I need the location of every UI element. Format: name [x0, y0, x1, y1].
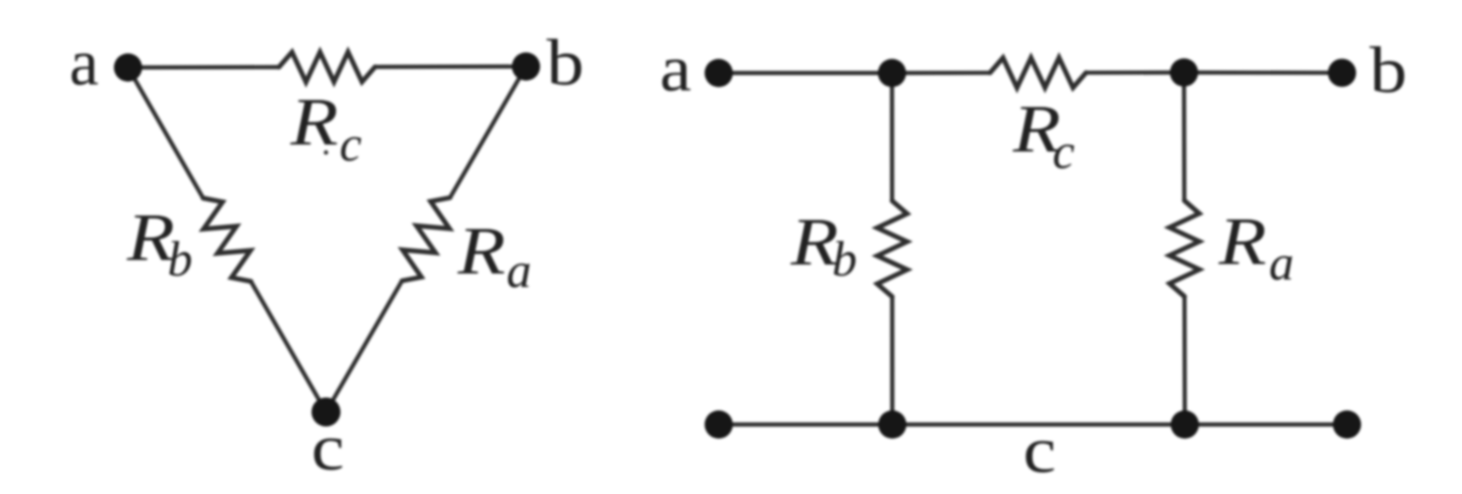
resistor Ra (delta) zigzag	[402, 198, 450, 281]
svg-text:c: c	[311, 411, 344, 484]
svg-text:a: a	[507, 242, 532, 298]
svg-text:R: R	[1218, 204, 1267, 279]
wire node a to Rc (delta)	[128, 65, 279, 70]
wire Rb (pi) to bottom-left junction	[890, 297, 894, 425]
top-right junction node (pi)	[1170, 58, 1198, 86]
wire Ra (delta) to node c	[326, 281, 402, 412]
svg-text:c: c	[1053, 123, 1075, 179]
svg-text:a: a	[69, 26, 98, 99]
bottom-right junction node (pi)	[1171, 410, 1199, 438]
svg-text:R: R	[289, 84, 338, 159]
wire Rc (pi) to top-right junction	[1086, 70, 1184, 74]
wire top-left junction to Rb (pi)	[890, 73, 894, 201]
top-left junction node (pi)	[878, 59, 906, 87]
svg-text:b: b	[547, 27, 585, 100]
svg-text:b: b	[832, 231, 857, 287]
wire Rb (delta) to node c	[251, 281, 326, 412]
node b (delta)	[512, 52, 540, 80]
stray dot under Rc label	[324, 150, 328, 154]
node c (delta)	[312, 398, 341, 427]
svg-text:a: a	[1269, 235, 1294, 291]
bottom-left terminal node (pi)	[705, 410, 733, 438]
wire bottom rail / node c (pi)	[719, 422, 1347, 426]
bottom-left junction node (pi)	[878, 410, 906, 438]
node a (delta)	[114, 53, 142, 81]
wire node b to Ra (delta)	[450, 67, 526, 198]
svg-text:c: c	[340, 116, 362, 172]
resistor Ra (pi) zigzag	[1169, 201, 1199, 297]
wire top-left junction to Rc (pi)	[892, 71, 990, 75]
svg-text:b: b	[168, 231, 193, 287]
resistor Rc (pi) zigzag	[990, 58, 1086, 88]
wire Rc (delta) to node b	[375, 64, 526, 69]
resistor Rb (delta) zigzag	[203, 198, 251, 281]
svg-text:R: R	[457, 213, 506, 288]
svg-text:b: b	[1370, 34, 1408, 107]
resistor Rb (pi) zigzag	[877, 201, 907, 297]
wire terminal a to top-left junction (pi)	[719, 71, 892, 75]
bottom-right terminal node (pi)	[1333, 410, 1361, 438]
terminal node b (pi)	[1328, 59, 1356, 87]
resistor Rc (delta) zigzag	[279, 52, 375, 82]
svg-text:a: a	[660, 32, 692, 105]
terminal node a (pi)	[705, 59, 733, 87]
wire node a to Rb (delta)	[128, 68, 203, 199]
svg-text:c: c	[1023, 414, 1056, 487]
wire top-right junction to Ra (pi)	[1182, 73, 1187, 201]
wire Ra (pi) to bottom-right junction	[1182, 297, 1187, 425]
wire top-right junction to terminal b (pi)	[1184, 70, 1342, 75]
